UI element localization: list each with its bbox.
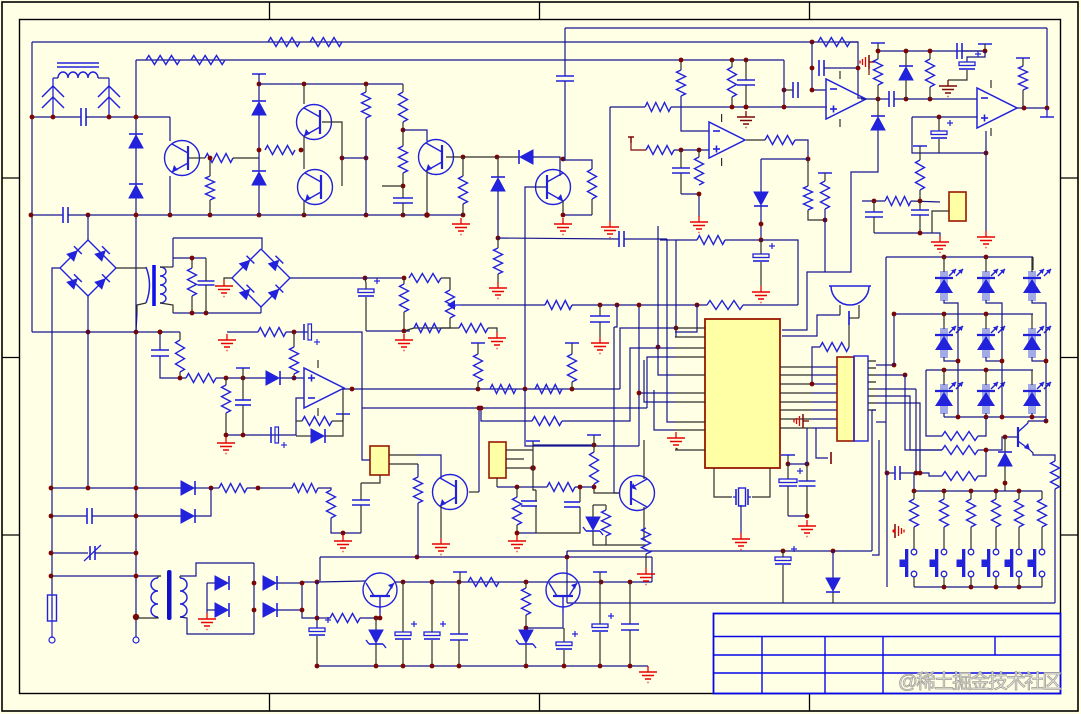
LED D20 [1028,384,1036,414]
capacitor C29 electrolytic [395,632,411,636]
wire [533,468,536,490]
resistor R11 [459,176,468,204]
capacitor C30 electrolytic [424,632,440,636]
transistor Q6 [1017,427,1019,447]
wire [302,581,317,583]
wire [784,89,793,91]
wire [86,116,170,118]
junction [942,312,947,317]
wire net Q4B [446,156,519,158]
power port T1 [252,73,266,75]
wire [746,139,765,141]
wire [173,257,206,259]
capacitor C39 tick [848,311,850,325]
wire [943,370,945,385]
LED D19 [982,384,990,414]
terminal P1 [49,637,55,643]
wire bus [876,374,905,376]
wire [877,99,879,116]
wire [967,51,985,62]
wire [302,583,317,618]
wire [477,343,479,354]
capacitor C4 [556,75,574,77]
resistor R29 [820,343,849,352]
wire [365,278,366,289]
wire [680,60,682,70]
wire [332,420,343,422]
wire [760,240,762,254]
wire [943,491,945,499]
wire [752,468,770,497]
wire [562,201,564,215]
wire [296,420,302,422]
wire [286,331,308,333]
resistor R45 [535,385,562,394]
junction [49,551,54,556]
wire [159,332,161,350]
wire [599,322,601,337]
power port T7 [1016,57,1030,59]
wire [440,506,442,538]
wire [366,330,410,332]
capacitor C2 [62,207,64,223]
wire [787,455,789,464]
wire [985,314,987,329]
wire LED column K3 [1032,300,1046,421]
wire [782,565,784,603]
wire [205,285,207,313]
wire main rail GND1 [68,214,463,216]
wire [402,173,404,198]
wire [938,117,940,131]
wire [173,312,261,314]
wire [362,405,370,460]
arrester E1 [42,86,64,97]
ic U7 [370,446,389,475]
resistor R59 [327,490,336,518]
terminal P2 [133,637,139,643]
junction [401,580,406,585]
junction [1022,106,1027,111]
wire [938,139,940,153]
wire [533,157,560,176]
LED D17 [1028,328,1036,358]
wire [575,486,594,488]
wire [812,347,820,384]
wire [225,413,227,435]
wire [506,467,533,469]
junction [302,82,307,87]
wire [943,314,945,329]
wire [873,217,875,233]
resistor R46 [532,417,562,426]
noise port NP2 [802,414,804,428]
wire [943,577,945,587]
resistor R69 [707,301,743,310]
title block [714,614,1061,694]
junction [224,433,229,438]
ground [460,218,462,224]
power port T13 [781,454,795,456]
wire [462,157,464,176]
junction [885,471,890,476]
wire [651,557,653,582]
resistor R19 [804,186,813,210]
wire LED rail A [886,256,1033,258]
crystal Y1 [735,489,737,505]
junction [872,199,877,204]
capacitor C15 [865,211,883,213]
wire [563,160,592,169]
wire switch rail top [914,490,1042,492]
wire bus [876,403,920,473]
transformer T2 [146,267,150,303]
wire [919,201,921,210]
diode D1 [129,133,143,135]
wire top rail VR [565,27,1047,29]
wire net X4 [51,575,161,577]
wire [868,69,870,75]
wire [342,414,344,421]
capacitor C14 electrolytic [931,131,947,135]
junction [515,485,520,490]
bridge rectifier BR1 [60,240,116,296]
diode D5 [518,150,520,164]
wire [680,173,682,194]
transistor Q3 [298,170,333,205]
wire [599,305,601,316]
resistor R20 [821,181,830,209]
wire [808,210,825,220]
resistor R31 [400,284,409,312]
resistor R51 [910,499,919,527]
diode D24 [215,576,228,590]
wire [782,551,784,557]
wire [1054,489,1056,603]
wire [95,552,136,554]
wire [87,332,89,488]
resistor R34 [414,324,441,333]
transistor Q1 [165,141,200,176]
wire [402,203,404,215]
junction [300,581,305,586]
resistor R9 [399,92,408,122]
wire [787,464,789,479]
ic U5 left pins [675,327,705,329]
wire [431,582,433,632]
wire net Q7B [478,408,480,492]
wire [970,491,972,499]
wire [458,640,460,666]
wire [698,150,700,157]
ground [760,286,762,292]
noise port NP3 [894,524,896,538]
wire [970,527,972,549]
wire net U5R [227,331,258,333]
wire net U2F [850,42,863,98]
wire [599,632,601,666]
switch S2 [941,549,947,555]
wire net VREC [290,277,365,279]
wire [911,201,940,202]
wire [624,238,667,240]
ground [225,437,227,443]
wire [317,617,330,619]
wire [517,532,536,534]
wire [417,455,441,478]
wire [224,278,232,280]
ic U5 MCU [705,319,780,468]
resistor R55 [1015,499,1024,527]
ground [342,535,344,541]
junction [810,40,815,45]
varistor RV1 [89,546,91,560]
wire [191,296,193,313]
ground [609,221,611,227]
diode D2 [129,183,143,185]
wire [885,422,887,473]
fuse F1 [48,595,57,621]
wire [216,377,266,379]
wire [943,257,945,272]
wire bus pin6 [639,392,675,394]
wire [137,303,146,313]
capacitor C18 electrolytic [358,289,374,293]
resistor R50 [1051,461,1060,489]
diode D21 [998,451,1012,453]
resistor R22 [818,38,850,47]
wire [296,435,311,437]
resistor R68 [176,340,185,372]
wire [316,636,318,666]
wire net WIP [461,304,545,306]
wire [526,613,563,628]
wire [247,487,292,489]
ground [698,216,700,222]
wire [535,506,537,533]
wire [87,296,89,332]
wire net X1 [51,487,181,489]
resistor R36 [545,301,572,310]
wire [1027,421,1029,423]
ground [599,337,601,343]
wire bus MCU-U6 [812,366,837,368]
arrester E2 [98,86,120,97]
junction [942,585,947,590]
wire [714,468,732,497]
junction [810,66,815,71]
wire switch rail bottom [914,586,1042,588]
resistor R66 [602,510,611,536]
wire [206,583,208,613]
wire [92,515,181,517]
wire [516,525,518,533]
wire bus pin9 [654,390,675,430]
wire [563,81,565,160]
wire row3 cathodes [943,413,945,417]
ic U5 right pins [780,366,812,368]
wire bus pin2 [675,240,676,337]
bridge rectifier BR2 [232,249,290,307]
wire [606,544,646,546]
wire [599,582,601,624]
capacitor C11 [888,91,890,107]
wire [571,343,573,354]
op-amp U3 [977,88,1017,128]
border zone ticks [269,2,271,20]
resistor R27 [916,160,925,190]
wire [807,159,809,186]
wire net U3M [894,98,977,100]
power port T17 [587,434,601,436]
resistor R70 [590,452,599,484]
LED D12 [940,271,948,301]
junction [49,486,54,491]
wire left vertical net L [31,42,33,332]
diode D6 [491,176,505,178]
capacitor C21 [151,349,169,351]
wire [195,487,211,489]
wire LED rail B [892,313,1033,315]
wire [614,305,617,327]
capacitor C1 [80,108,82,126]
wire [905,375,942,450]
diode D7 [754,192,768,205]
wire [303,136,305,150]
wire [932,211,949,233]
resistor R28 [885,197,911,206]
wire [160,356,186,378]
wire net F1 [498,238,619,239]
wire [919,190,921,201]
wire [160,331,180,333]
junction [759,238,764,243]
wire [53,77,58,79]
wire [160,303,173,313]
switch S6 [1039,549,1045,555]
wire [189,157,205,159]
junction [918,231,923,236]
wire top rail VCC1 [32,41,858,43]
wire bus railA feed [885,257,887,422]
wire [360,483,362,500]
wire [293,374,295,378]
junction [1003,435,1008,440]
wire [806,486,808,516]
ground [440,538,442,544]
wire [566,551,568,557]
wire [905,80,907,99]
wire [242,405,244,435]
junction [679,148,684,153]
wire [806,428,808,464]
wire [761,240,798,305]
wire [610,106,645,108]
wire [915,389,917,473]
wire [591,199,593,215]
junction [30,115,35,120]
wire [303,84,305,104]
wire bus vert [638,305,640,446]
wire [985,257,987,272]
resistor R1 [268,38,300,47]
wire [760,159,762,192]
wire [258,115,260,171]
ground [226,334,228,340]
junction [257,148,262,153]
wire [375,618,377,630]
wire [402,640,404,666]
wire [1032,257,1034,270]
resistor R39 [186,374,216,383]
wire [886,473,888,587]
wire [593,504,606,506]
ground [516,535,518,541]
capacitor C19 [590,315,610,317]
junction [956,415,961,420]
junction [598,303,603,308]
wire [873,201,875,212]
wire bus [876,388,916,390]
ic U6 right pins [868,360,876,362]
wire [209,200,211,215]
wire [225,378,227,385]
wire [253,563,255,634]
wire bus long [871,410,873,551]
wire [180,617,254,634]
wire [497,191,499,238]
resistor R48 [942,446,978,455]
wire [533,444,594,446]
wire [242,378,244,400]
wire [605,505,607,510]
wire net R1 [32,331,160,333]
capacitor C38 electrolytic [775,557,791,561]
wire [169,117,171,141]
wire [389,454,417,456]
wire [169,176,171,215]
wire bus [876,421,886,423]
ground [403,334,405,340]
wire [824,209,826,272]
wire [848,325,850,347]
wire [403,130,427,141]
resistor R30 [188,268,197,296]
wire net BZ [782,130,878,330]
junction [956,359,961,364]
wire [303,201,305,215]
wire [1004,466,1006,491]
wire [593,435,595,452]
wire [913,577,915,587]
wire net X2 [51,515,87,517]
wire [874,233,940,236]
wire main rail GND1 [31,214,63,216]
wire [929,87,931,99]
wire net U5O [343,388,620,390]
capacitor C20 electrolytic [303,324,305,340]
transistor Q5 [536,170,571,205]
buzzer LS1 [829,285,871,287]
wire [563,628,565,642]
wire [51,595,53,638]
diode D4 [252,170,266,172]
wire [862,200,885,202]
wire [788,463,807,465]
wire net B vertical [135,60,137,617]
wire bus pin7b [644,360,675,402]
transformer T3 [151,578,158,617]
